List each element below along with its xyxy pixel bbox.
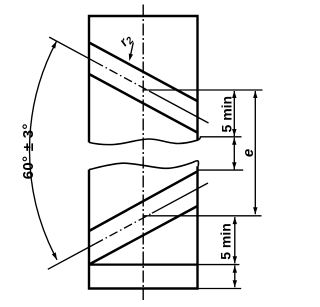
dimension e upper arrowhead (253, 91, 257, 98)
flank angle line M2 solid left tail (48, 244, 95, 269)
dimension e line (254, 91, 256, 214)
extension line H2 (end of top block, y=136.8) (200, 136, 242, 138)
dimension e lower arrowhead (253, 207, 257, 214)
part centerline (vertical dash-dot axis) (142, 5, 144, 301)
angle arc 60 deg (30, 41, 57, 260)
dimension 5 min (bottom) line (234, 217, 236, 263)
svg-text:e: e (240, 149, 257, 157)
gap dimension arrows (between blocks) (233, 138, 235, 170)
thread crest line D (bottom block upper thick diagonal) (89, 171, 198, 231)
thread crest line C (bottom block lower thick diagonal) (89, 206, 198, 265)
top block break line (wavy) (89, 137, 201, 145)
gap2 dimension arrows (below bore line) (234, 266, 236, 288)
r2 leader line (130, 43, 133, 58)
flank angle line M2 dash-dot middle (95, 213, 152, 244)
svg-text:5 min: 5 min (218, 223, 234, 260)
svg-text:60° ± 3°: 60° ± 3° (20, 123, 37, 179)
flank angle line M1 dash-dot middle (95, 62, 150, 92)
angle arc lower arrowhead (52, 252, 57, 259)
r2 leader arrowhead (129, 54, 133, 62)
flank angle line M1 solid left tail (49, 37, 95, 62)
thread crest line T2 (top block lower thick diagonal) (89, 74, 198, 133)
bottom block outline (89, 166, 198, 288)
extension line H2b (start of bottom block, y=170.1) (198, 169, 243, 171)
top block outline (89, 16, 198, 142)
extension line H3 (y=216.4) (143, 215, 261, 217)
extension line H1 (top, y=90) (144, 89, 263, 91)
bottom block break line (wavy) (89, 161, 199, 170)
svg-text:5 min: 5 min (218, 96, 234, 133)
angle arc upper arrowhead (51, 41, 56, 48)
dimension 5 min (top) upper arrowhead (232, 91, 236, 98)
flank angle line M1 solid right part (150, 92, 209, 124)
bore face line H4 (thick, inside bottom block) (89, 264, 198, 266)
dimension 5 min (bottom) upper arrowhead (233, 217, 237, 224)
extension line H5 (bottom edge tail, y=288.5) (198, 288, 242, 290)
dimension 5 min (top) line (233, 91, 235, 136)
extension line H4 tail (y=264.6) (198, 264, 240, 266)
dimension 5 min (bottom) lower arrowhead (233, 256, 237, 263)
dimension 5 min (top) lower arrowhead (232, 129, 236, 136)
flank angle line M2 solid right part (152, 183, 208, 213)
thread crest line T1 (top block upper thick diagonal) (89, 43, 198, 102)
